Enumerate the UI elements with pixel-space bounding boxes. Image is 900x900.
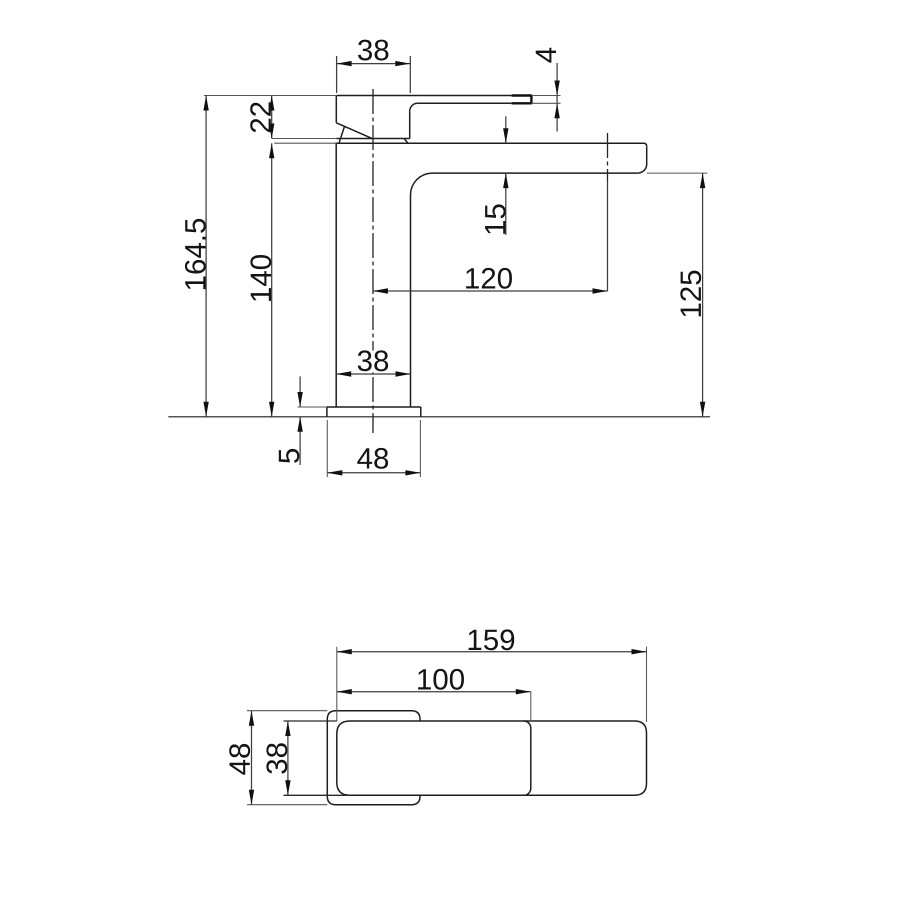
label 22	[250, 102, 271, 132]
dimension 159: arrows	[337, 649, 352, 654]
dimension 48 base: extension lines	[327, 420, 420, 477]
body centerline	[372, 89, 374, 433]
dimension 5: upper line	[299, 376, 301, 407]
lever tip end cap	[530, 95, 532, 105]
base right edge	[420, 407, 422, 417]
lever bottom edge thick tip	[512, 102, 532, 104]
label 164.5	[185, 219, 206, 289]
dimension 4: line across gap	[556, 96, 558, 104]
spout centerline	[607, 133, 609, 181]
base left edge	[326, 407, 328, 417]
dimension 4: lower line	[556, 103, 558, 131]
dimension 4: extension lines	[531, 96, 560, 104]
body right edge	[410, 195, 412, 407]
spout bottom fillet to body	[411, 173, 433, 195]
label 38	[266, 743, 287, 773]
label 4	[536, 48, 556, 63]
dimension 48 handle: extension lines	[247, 711, 327, 805]
dimension 159: dimension line	[337, 651, 647, 653]
dimension 38 body width: arrows	[285, 721, 290, 736]
label 38	[358, 40, 388, 61]
spout centerline extension to 120 dim	[607, 181, 609, 291]
dimension 164.5: dimension line	[205, 96, 207, 417]
lever top edge thick tip	[512, 94, 532, 96]
dimension 140: dimension line	[271, 143, 273, 417]
body outline (top view)	[337, 721, 647, 795]
dimension 100: dimension line	[337, 691, 531, 693]
lever bottom edge	[418, 102, 512, 104]
label 5	[279, 449, 300, 463]
dimension 48 handle: dimension line	[251, 711, 253, 805]
dimension 48 base: arrows	[327, 470, 342, 475]
dimension 159: extension lines	[337, 647, 647, 722]
lever front face edge	[339, 127, 344, 144]
lever underside diagonal	[336, 123, 372, 139]
dimension 5: arrows	[297, 392, 302, 407]
head left edge	[335, 96, 337, 123]
dimension 38 body width: dimension line	[287, 721, 289, 795]
dimension 15: upper line	[505, 116, 507, 143]
body and spout top line	[336, 143, 647, 146]
head bottom chamfer to deck	[404, 139, 408, 144]
base top line	[327, 406, 421, 408]
dimension 38 lower: dimension line	[336, 373, 410, 375]
base top extension line	[298, 406, 327, 408]
label 140	[250, 255, 271, 301]
label 100	[418, 669, 464, 690]
head bottom line	[336, 138, 409, 140]
dimension 22: dimension line	[271, 96, 273, 139]
label 159	[469, 629, 515, 650]
dimension 4: arrows	[554, 81, 559, 96]
dimension 38 top: extension lines	[337, 56, 411, 93]
dimension 100: extension line	[530, 692, 532, 722]
dimension 38 body width: extension lines	[284, 721, 351, 795]
dimension 100: arrows	[337, 689, 352, 694]
dimension 15: arrows	[503, 128, 508, 143]
dimension 120: dimension line	[373, 290, 608, 292]
text mask behind lower 38 label	[354, 351, 391, 373]
dimension 48 handle: arrows	[249, 711, 254, 726]
spout bottom extension line	[647, 172, 708, 174]
label 15	[485, 204, 506, 233]
head bottom extension line	[272, 138, 337, 140]
dimension 164.5: arrows	[203, 96, 208, 111]
body section edge with fillets	[524, 721, 531, 795]
deck top extension line	[274, 142, 336, 144]
dimension 38 lower: arrows	[336, 371, 351, 376]
spout right end edge	[638, 146, 647, 173]
dimension 38 top: arrows	[337, 61, 352, 66]
label 125	[680, 271, 701, 317]
handle outline (top view)	[327, 711, 420, 805]
spout bottom edge	[432, 172, 638, 174]
label 48	[357, 448, 388, 469]
dimension 5: lower line	[299, 417, 301, 465]
dimension 4: upper line	[556, 63, 558, 96]
head right edge	[409, 111, 411, 138]
dimension 22: arrows	[269, 96, 274, 111]
body left edge	[335, 143, 337, 407]
label 120	[466, 268, 512, 289]
dimension 120: arrows	[373, 288, 388, 293]
dimension 125: dimension line	[702, 173, 704, 417]
dimension 140: arrows	[269, 143, 274, 158]
label 48	[229, 744, 250, 775]
lever top edge	[337, 95, 512, 97]
lever bottom corner arc	[410, 103, 418, 111]
dimension 48 base: dimension line	[327, 472, 420, 474]
dimension 164.5: top extension line	[204, 95, 336, 97]
counter line	[168, 416, 710, 418]
dimension 38 top: dimension line	[337, 63, 411, 65]
dimension 15: lower line	[505, 173, 507, 235]
dimension 125: arrows	[700, 173, 705, 188]
label 38	[358, 350, 388, 371]
